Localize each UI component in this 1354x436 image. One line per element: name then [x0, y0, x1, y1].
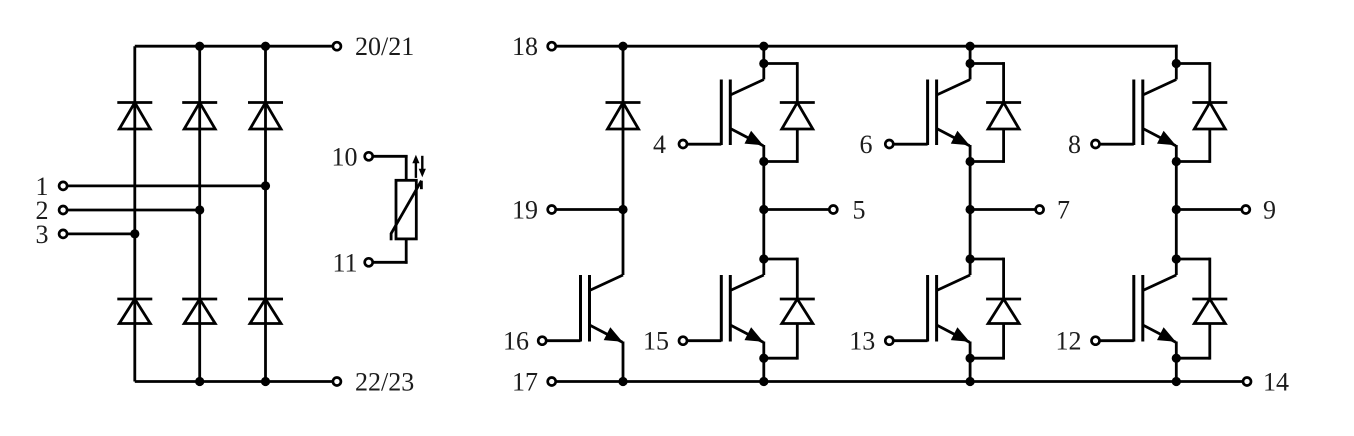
thermistor arrow down	[419, 156, 426, 177]
label 15	[643, 327, 669, 356]
terminal 16	[538, 337, 546, 345]
wire to bottom rail 7	[969, 358, 972, 381]
terminal 13	[885, 337, 893, 345]
terminal 14	[1243, 378, 1251, 386]
label 20/21	[355, 32, 414, 61]
rectifier diode top leg 1	[117, 103, 152, 130]
junction output 5	[759, 205, 768, 214]
freewheel diode lower 5	[764, 258, 815, 360]
label 10	[332, 142, 358, 171]
wire emitter stub bottom 9	[1175, 342, 1178, 359]
svg-text:20/21: 20/21	[355, 32, 414, 61]
terminal 20/21	[333, 42, 341, 50]
wire phase mid 5	[762, 162, 765, 260]
junction collector fork top 7	[966, 59, 975, 68]
wire phase mid 9	[1175, 162, 1178, 260]
junction collector fork top 5	[759, 59, 768, 68]
IGBT upper phase 7	[893, 80, 970, 146]
wire to bottom rail 9	[1175, 358, 1178, 381]
junction input 2	[195, 205, 204, 214]
svg-text:3: 3	[36, 220, 49, 249]
junction emitter bottom 5	[759, 354, 768, 363]
wire rail to fork 5	[762, 46, 765, 63]
IGBT upper phase 5	[687, 80, 764, 146]
terminal 1	[59, 182, 67, 190]
wire terminal 10 to thermistor	[373, 155, 408, 181]
svg-text:16: 16	[503, 327, 529, 356]
wire top DC bus	[556, 45, 1178, 64]
thermistor arrow up	[412, 155, 419, 178]
svg-text:6: 6	[860, 130, 873, 159]
junction emitter top 5	[759, 157, 768, 166]
terminal 9	[1242, 206, 1250, 214]
junction collector fork bottom 7	[966, 254, 975, 263]
junction emitter top 9	[1172, 157, 1181, 166]
freewheel diode lower 9	[1176, 258, 1227, 360]
rectifier diode top leg 3	[248, 103, 283, 130]
svg-text:10: 10	[332, 142, 358, 171]
label 14	[1263, 367, 1289, 396]
wire output 7	[970, 208, 1036, 211]
terminal 12	[1092, 337, 1100, 345]
rectifier diode bottom leg 2	[182, 299, 217, 324]
wire output 5	[764, 208, 830, 211]
junction node 19	[618, 205, 627, 214]
junction bottom rail leg1	[618, 377, 627, 386]
terminal 7	[1036, 206, 1044, 214]
wire bottom DC bus	[556, 380, 1243, 383]
junction emitter top 7	[966, 157, 975, 166]
label 3	[36, 220, 49, 249]
svg-text:18: 18	[512, 32, 538, 61]
wire chopper collector	[622, 210, 625, 276]
rectifier diode bottom leg 3	[248, 299, 283, 324]
junction top rail	[261, 42, 270, 51]
junction emitter bottom 7	[966, 354, 975, 363]
label 16	[503, 327, 529, 356]
wire rail to fork 7	[969, 46, 972, 63]
terminal 11	[365, 258, 373, 266]
terminal 5	[829, 206, 837, 214]
wire rectifier leg 3	[264, 46, 267, 381]
junction collector fork top 9	[1172, 59, 1181, 68]
svg-text:9: 9	[1263, 195, 1276, 224]
wire emitter stub bottom 5	[762, 342, 765, 359]
junction bottom rail leg 7	[966, 377, 975, 386]
terminal 19	[548, 206, 556, 214]
freewheel diode lower 7	[970, 258, 1021, 360]
label 19	[512, 195, 538, 224]
terminal 10	[365, 152, 373, 160]
junction top rail leg1	[618, 42, 627, 51]
wire output 9	[1176, 208, 1242, 211]
wire bottom DC- rail	[135, 380, 333, 383]
junction collector fork bottom 5	[759, 254, 768, 263]
junction output 9	[1172, 205, 1181, 214]
label 18	[512, 32, 538, 61]
wire phase mid 7	[969, 162, 972, 260]
terminal 15	[679, 337, 687, 345]
rectifier diode top leg 2	[182, 103, 217, 130]
IGBT Q7 brake chopper	[546, 275, 623, 342]
wire emitter stub top 5	[762, 145, 765, 162]
freewheel diode upper 5	[764, 62, 815, 163]
terminal 2	[59, 206, 67, 214]
label 2	[36, 196, 49, 225]
junction bottom rail	[261, 377, 270, 386]
junction top rail leg 7	[966, 42, 975, 51]
svg-text:5: 5	[853, 195, 866, 224]
terminal 4	[679, 140, 687, 148]
junction emitter bottom 9	[1172, 354, 1181, 363]
label 4	[653, 130, 666, 159]
terminal 3	[59, 230, 67, 238]
label 12	[1056, 327, 1082, 356]
wire emitter stub bottom 7	[969, 342, 972, 359]
terminal 18	[548, 42, 556, 50]
label 5	[853, 195, 866, 224]
freewheel diode upper 7	[970, 62, 1021, 163]
wire terminal 19	[556, 208, 623, 211]
wire thermistor to terminal 11	[373, 238, 408, 264]
wire collector stub bottom 9	[1175, 259, 1178, 275]
wire collector stub top 9	[1175, 64, 1178, 80]
svg-text:14: 14	[1263, 367, 1289, 396]
label 8	[1068, 130, 1081, 159]
terminal 8	[1092, 140, 1100, 148]
junction input 1	[261, 181, 270, 190]
label 9	[1263, 195, 1276, 224]
wire rectifier leg 1	[133, 46, 136, 381]
wire rectifier leg 2	[198, 46, 201, 381]
wire to bottom rail 5	[762, 358, 765, 381]
junction bottom rail	[195, 377, 204, 386]
junction bottom rail leg 5	[759, 377, 768, 386]
wire AC input 3	[67, 232, 135, 235]
wire AC input 2	[67, 209, 200, 212]
junction top rail leg 5	[759, 42, 768, 51]
IGBT lower phase 9	[1100, 275, 1177, 342]
svg-text:13: 13	[849, 327, 875, 356]
svg-text:15: 15	[643, 327, 669, 356]
terminal 17	[548, 378, 556, 386]
junction collector fork bottom 9	[1172, 254, 1181, 263]
IGBT upper phase 9	[1100, 80, 1177, 146]
junction top rail	[195, 42, 204, 51]
thermistor RT1 body	[391, 180, 421, 240]
label 1	[36, 172, 49, 201]
label 13	[849, 327, 875, 356]
wire chopper leg upper	[622, 46, 625, 209]
rectifier diode bottom leg 1	[117, 299, 152, 324]
svg-text:19: 19	[512, 195, 538, 224]
IGBT lower phase 5	[687, 275, 764, 342]
wire collector stub bottom 7	[969, 259, 972, 275]
label 11	[332, 248, 357, 277]
wire collector stub top 7	[969, 64, 972, 80]
junction bottom rail leg 9	[1172, 377, 1181, 386]
freewheel diode upper 9	[1176, 62, 1227, 163]
wire emitter stub top 7	[969, 145, 972, 162]
svg-text:4: 4	[653, 130, 666, 159]
label 7	[1057, 195, 1070, 224]
junction output 7	[966, 205, 975, 214]
svg-text:7: 7	[1057, 195, 1070, 224]
IGBT lower phase 7	[893, 275, 970, 342]
svg-text:11: 11	[332, 248, 357, 277]
terminal 6	[885, 140, 893, 148]
chopper diode D7	[606, 103, 641, 130]
wire collector stub bottom 5	[762, 259, 765, 275]
terminal 22/23	[333, 378, 341, 386]
wire chopper emitter	[622, 342, 625, 382]
junction input 3	[130, 229, 139, 238]
wire collector stub top 5	[762, 64, 765, 80]
wire top DC+ rail	[135, 45, 333, 48]
svg-text:22/23: 22/23	[355, 367, 414, 396]
svg-text:8: 8	[1068, 130, 1081, 159]
svg-text:12: 12	[1056, 327, 1082, 356]
svg-text:17: 17	[512, 367, 538, 396]
wire emitter stub top 9	[1175, 145, 1178, 162]
wire AC input 1	[67, 184, 265, 187]
label 17	[512, 367, 538, 396]
label 22/23	[355, 367, 414, 396]
label 6	[860, 130, 873, 159]
